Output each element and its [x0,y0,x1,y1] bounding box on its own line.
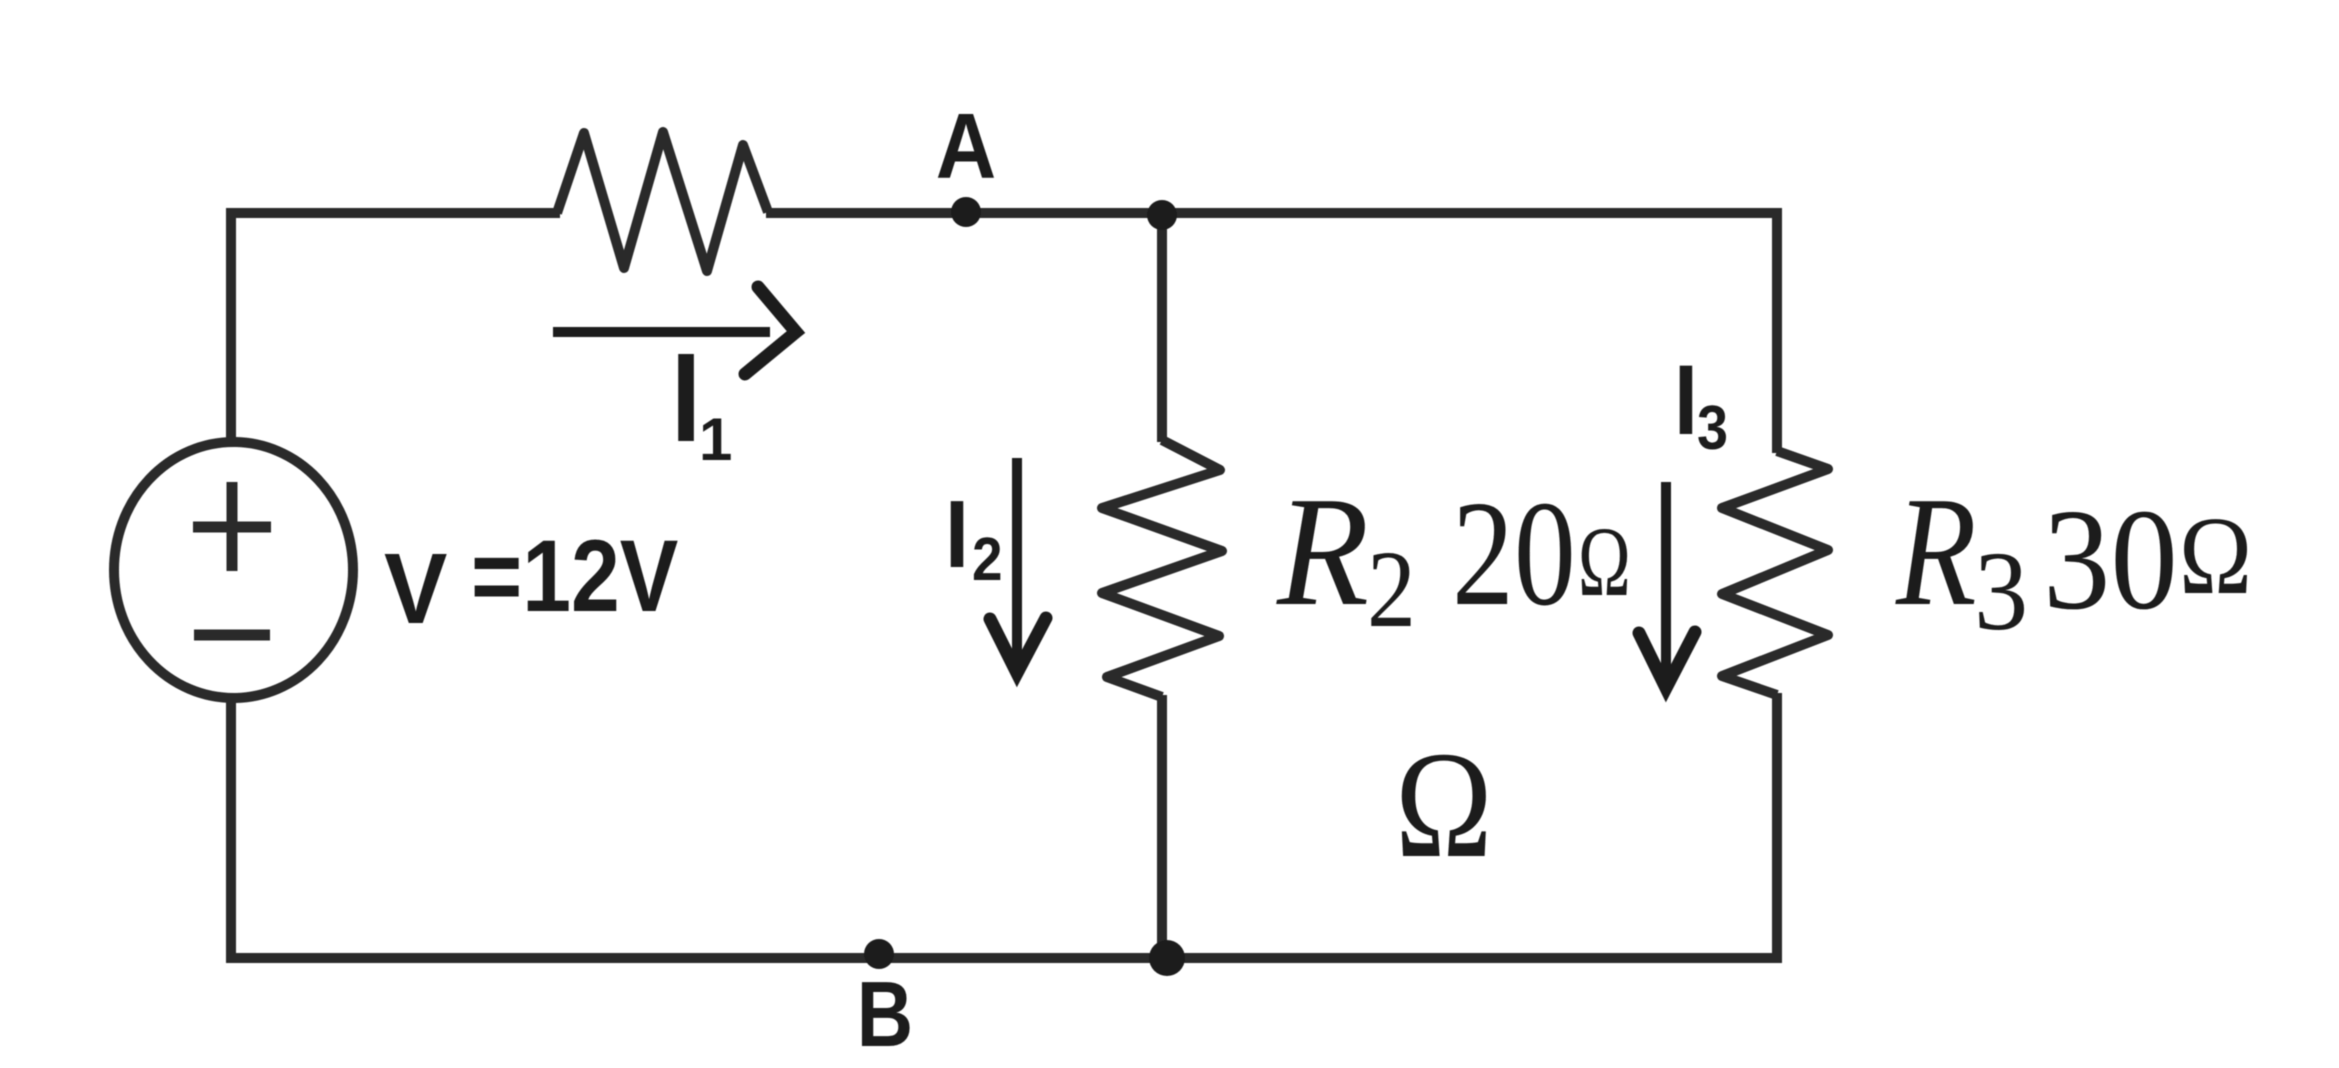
svg-text:30: 30 [2043,480,2178,641]
current arrow I2 [990,458,1046,673]
resistor R2 [1102,440,1222,697]
svg-text:I: I [671,327,701,467]
wire right vertical upper [1772,208,1782,453]
svg-text:B: B [857,963,913,1067]
label I2 [945,481,1003,594]
svg-text:R: R [1276,465,1369,638]
node A [951,197,981,227]
label B [857,963,913,1067]
svg-text:I: I [945,481,969,588]
label I3 [1674,344,1728,462]
svg-text:2: 2 [1367,528,1416,651]
resistor R3 [1722,451,1828,695]
svg-text:20: 20 [1452,469,1576,636]
junction node A right [1147,200,1177,230]
svg-text:A: A [936,94,996,198]
voltage source V [114,442,353,698]
svg-text:2: 2 [972,525,1003,593]
wire top-left segment [227,208,560,218]
wire bottom [226,953,1782,963]
label I1 [671,327,732,473]
wire middle vertical lower [1157,695,1167,963]
svg-text:I: I [1674,344,1698,455]
svg-text:3: 3 [1697,394,1728,462]
label A [936,94,996,198]
label R3 30Ω [1895,465,2252,653]
resistor R1 [557,132,768,271]
wire left vertical lower [226,700,236,963]
svg-text:Ω: Ω [2179,495,2252,618]
svg-text:=12V: =12V [471,520,678,634]
svg-text:V: V [384,533,447,645]
label R2 20Ω [1276,465,1631,650]
label Ω [1395,720,1493,889]
wire middle vertical upper [1157,208,1167,442]
node B [864,939,894,969]
svg-text:Ω: Ω [1578,506,1631,617]
label V=12V [384,520,678,645]
wire left vertical upper [226,208,236,440]
current arrow I3 [1639,482,1695,688]
svg-text:R: R [1895,465,1976,638]
wire right vertical lower [1772,693,1782,963]
svg-text:Ω: Ω [1395,720,1493,889]
svg-text:1: 1 [699,406,732,473]
current arrow I1 [553,287,796,374]
svg-text:3: 3 [1974,528,2028,653]
junction bottom middle [1149,940,1185,976]
wire top-right segment [766,208,1782,218]
